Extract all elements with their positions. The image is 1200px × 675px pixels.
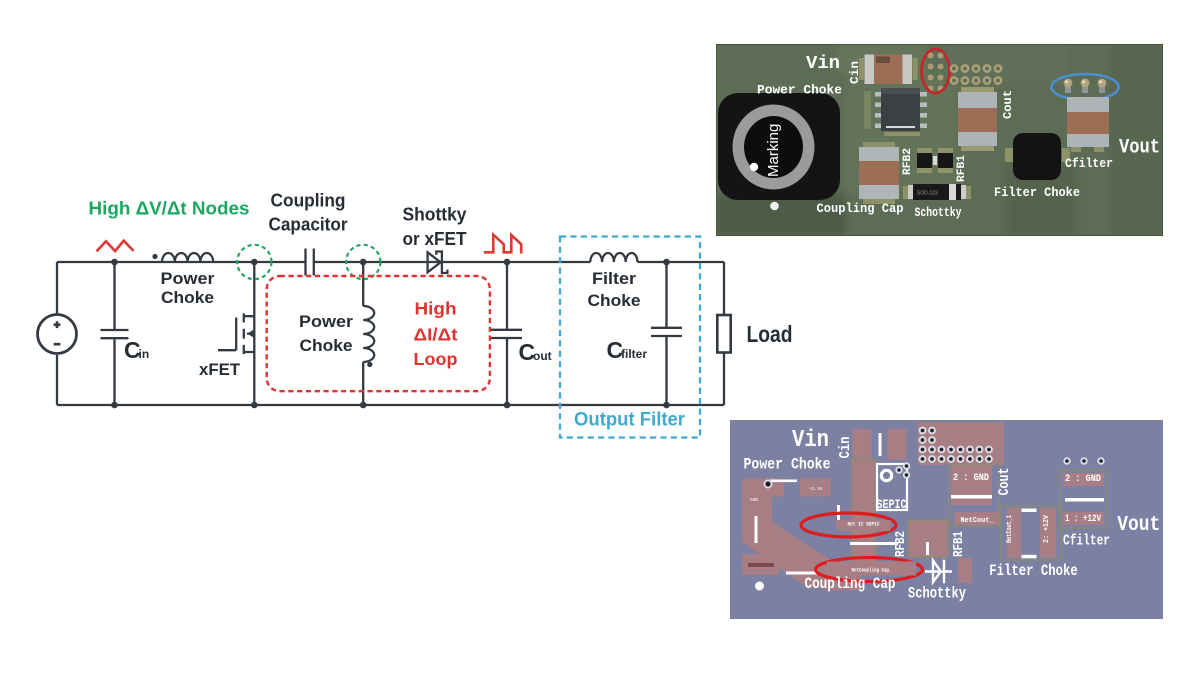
svg-text:Filter: Filter: [592, 269, 636, 288]
svg-text:Coupling Cap: Coupling Cap: [817, 202, 904, 216]
svg-text:Loop: Loop: [414, 349, 458, 369]
svg-text:High ΔV/Δt Nodes: High ΔV/Δt Nodes: [89, 199, 250, 219]
svg-text:Choke: Choke: [161, 288, 214, 307]
svg-text:Vin: Vin: [806, 54, 840, 74]
svg-text:Shottky: Shottky: [403, 205, 467, 225]
svg-text:Vin: Vin: [792, 427, 829, 454]
svg-text:ΔI/Δt: ΔI/Δt: [414, 325, 458, 345]
svg-text:Output Filter: Output Filter: [574, 409, 685, 431]
svg-text:Capacitor: Capacitor: [269, 215, 348, 235]
svg-text:Schottky: Schottky: [908, 585, 966, 603]
svg-text:Cfilter: Cfilter: [1065, 157, 1113, 171]
svg-text:Cin: Cin: [837, 437, 854, 459]
svg-text:filter: filter: [621, 347, 647, 361]
svg-text:Choke: Choke: [300, 336, 353, 355]
svg-text:xFET: xFET: [199, 360, 241, 379]
svg-text:High: High: [415, 299, 457, 319]
svg-text:2 : GND: 2 : GND: [953, 472, 989, 484]
svg-text:Load: Load: [747, 321, 793, 347]
svg-text:Filter Choke: Filter Choke: [989, 562, 1078, 580]
svg-text:Cout: Cout: [1001, 90, 1015, 119]
svg-text:NetCout_: NetCout_: [961, 517, 994, 525]
svg-text:Net IC SEPIC: Net IC SEPIC: [848, 521, 881, 528]
svg-text:NetCout_1: NetCout_1: [1006, 515, 1014, 543]
svg-text:SEPIC: SEPIC: [877, 497, 907, 512]
svg-text:Power Choke: Power Choke: [757, 83, 842, 98]
svg-text:2 : GND: 2 : GND: [1065, 473, 1101, 485]
svg-text:Choke: Choke: [588, 291, 641, 310]
svg-text:2: +12V: 2: +12V: [1043, 514, 1051, 543]
svg-text:Cin: Cin: [848, 61, 862, 84]
svg-text:+2.2n: +2.2n: [809, 486, 823, 492]
svg-text:Vout: Vout: [1117, 513, 1160, 537]
svg-text:RFB1: RFB1: [956, 155, 968, 182]
svg-text:1 : +12V: 1 : +12V: [1065, 513, 1101, 525]
svg-text:Marking: Marking: [765, 124, 782, 177]
svg-text:SOD-123: SOD-123: [917, 191, 938, 197]
svg-text:Cfilter: Cfilter: [1063, 533, 1110, 550]
svg-text:Coupling: Coupling: [271, 191, 346, 211]
svg-text:out: out: [533, 349, 552, 363]
svg-text:Filter Choke: Filter Choke: [994, 186, 1080, 200]
svg-text:Vout: Vout: [1119, 137, 1160, 160]
svg-text:NetCoupling Cap_: NetCoupling Cap_: [852, 567, 893, 574]
svg-text:Power: Power: [161, 269, 215, 288]
svg-text:Coupling Cap: Coupling Cap: [805, 575, 896, 593]
svg-text:Power: Power: [299, 312, 353, 331]
svg-text:GND: GND: [750, 497, 758, 503]
svg-text:RFB2: RFB2: [893, 531, 909, 557]
svg-text:or xFET: or xFET: [403, 229, 467, 249]
svg-text:Schottky: Schottky: [915, 206, 962, 220]
svg-text:RFB2: RFB2: [902, 148, 914, 175]
svg-text:RFB1: RFB1: [951, 531, 967, 557]
svg-text:in: in: [139, 347, 150, 361]
svg-text:Power Choke: Power Choke: [744, 456, 831, 474]
svg-text:Cout: Cout: [996, 468, 1013, 496]
